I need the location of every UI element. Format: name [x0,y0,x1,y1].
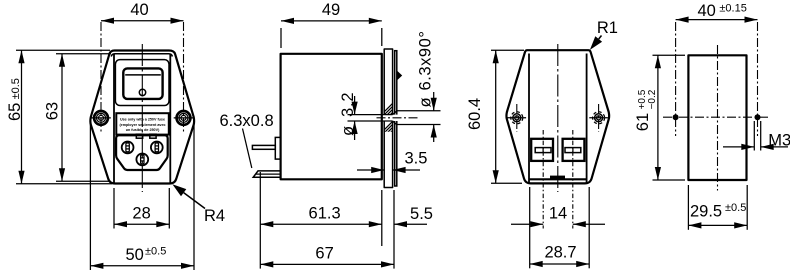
hole centerline left [100,22,102,132]
rear view outline [506,50,609,183]
svg-text:3.2: 3.2 [339,92,357,117]
svg-text:R4: R4 [204,207,225,225]
svg-text:50: 50 [126,246,144,264]
hole gap through flange [383,115,398,121]
front view body side edges [113,54,115,183]
dim 29.5 +-0.5 [687,185,689,230]
dim 40 +-0.15 [676,19,758,21]
dim 3.5 [357,169,384,171]
front view inner cap line [111,54,172,57]
dim 65 +-0.5 [16,49,110,51]
M3 hole right [755,114,761,120]
terminal block right [563,139,585,161]
cutout horizontal centerline [663,116,770,118]
svg-text:±0.5: ±0.5 [145,246,166,258]
svg-text:61.3: 61.3 [309,204,341,222]
dim 28 bottom [113,188,115,229]
mounting hole left [94,111,108,125]
leader R4 [172,184,186,196]
front view body outline [90,51,194,184]
IEC inlet outline [116,135,168,170]
terminal centerline left [542,130,544,229]
upper faston tab [252,145,275,149]
M3 hole left [673,114,679,120]
svg-text:40: 40 [698,2,716,20]
dim M3 [753,121,755,151]
svg-text:±0.15: ±0.15 [719,2,746,14]
svg-text:29.5: 29.5 [690,202,722,220]
rocker switch [123,68,162,99]
countersink [393,111,397,115]
dim 14 [511,223,543,225]
svg-text:6.3x0.8: 6.3x0.8 [220,112,274,130]
IEC pin N [151,142,163,154]
rear centerline [557,44,559,192]
leader R1 [590,36,602,50]
side view body [281,54,382,180]
dim dia 3.2 [348,114,393,116]
rear plate line [395,51,397,186]
rear mounting hole right [593,112,605,124]
svg-text:28.7: 28.7 [544,244,576,262]
mounting hole right [177,111,191,125]
switch indicator circle [139,89,145,95]
panel cutout rect [688,55,746,180]
hatch lower [378,118,420,136]
svg-text:63: 63 [44,102,62,120]
leader 6.3x0.8 [243,129,252,169]
svg-text:ø: ø [417,97,435,107]
snap tab [397,70,403,80]
hole centerline [377,117,418,119]
svg-text:61: 61 [634,113,652,131]
dim 28.7 [529,187,531,268]
fuse label box [116,113,169,134]
cutout vertical centerline [717,45,719,191]
bottom nameplate mark [550,176,565,179]
svg-text:un fusible de 250V): un fusible de 250V) [126,128,160,132]
svg-text:±0.5: ±0.5 [725,202,746,214]
svg-text:M3: M3 [768,131,790,149]
dim 40 top [101,20,184,22]
dim 67 [260,263,394,265]
IEC pin L [122,142,134,154]
svg-text:5.5: 5.5 [410,205,433,223]
dim 49 [280,28,282,48]
dim dia 6.3x90 [398,110,441,112]
IEC pin E [136,154,148,166]
lower faston tab [253,171,280,177]
dim 50 +-0.5 [89,125,91,271]
dim 61.3 / 5.5 [259,172,261,269]
svg-text:49: 49 [322,1,340,19]
svg-text:60.4: 60.4 [466,98,484,130]
front view vertical centerline [141,44,143,192]
dim 61 tol [653,54,686,56]
svg-text:R1: R1 [597,19,618,37]
svg-text:65: 65 [6,103,24,121]
dim 60.4 [491,49,524,51]
rocker switch recess [115,60,169,106]
rear mounting hole left [511,112,523,124]
svg-text:3.5: 3.5 [405,149,428,167]
rear face side edges [528,54,530,184]
terminal block left [531,139,553,161]
rear inner bottom edge [529,178,587,180]
svg-text:67: 67 [315,245,333,263]
svg-text:40: 40 [130,1,148,19]
flange plate [384,49,392,188]
svg-text:±0.5: ±0.5 [10,78,22,99]
svg-text:14: 14 [549,204,567,222]
dim 63 [56,53,111,55]
terminal centerline right [572,130,574,229]
svg-text:ø: ø [339,126,357,136]
svg-text:−0.2: −0.2 [647,89,658,109]
svg-text:28: 28 [132,204,150,222]
hatch upper [378,100,420,118]
svg-text:6.3x90°: 6.3x90° [417,31,435,91]
fuseholder notches [136,134,142,138]
hole centerline right [183,22,185,132]
